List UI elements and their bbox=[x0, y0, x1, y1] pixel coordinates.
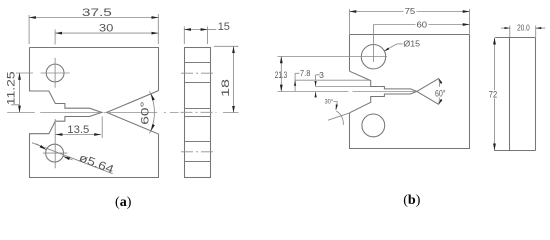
svg-text:11.25: 11.25 bbox=[6, 71, 18, 105]
svg-text:3: 3 bbox=[319, 70, 324, 80]
angle 60 arc (a) bbox=[150, 91, 155, 133]
plate (b) outline bbox=[350, 35, 470, 149]
svg-text:21.3: 21.3 bbox=[275, 70, 287, 80]
text 72 (b side) bbox=[488, 90, 499, 98]
leader dia 5.64 (a) bbox=[32, 143, 113, 174]
hole A2 center marks bbox=[43, 119, 68, 168]
svg-text:72: 72 bbox=[489, 90, 497, 100]
side view (b) outline bbox=[494, 38, 535, 151]
dimension 13.5 (a) bbox=[101, 117, 103, 139]
dimension 15 (a side) bbox=[184, 27, 207, 45]
side view (a) internal lines bbox=[185, 63, 211, 162]
hole B1 horizontal center/ref line bbox=[278, 56, 388, 58]
plate (a) outline bbox=[30, 48, 159, 178]
angle 60 arc (b) bbox=[439, 78, 440, 104]
svg-text:(a): (a) bbox=[115, 195, 132, 210]
leader dia 15 (b) bbox=[397, 43, 403, 45]
reference line to apex (b) bbox=[328, 113, 350, 120]
svg-text:13.5: 13.5 bbox=[67, 124, 89, 136]
side view (a) outline bbox=[185, 48, 211, 178]
svg-text:30: 30 bbox=[99, 23, 114, 35]
hole A1 center marks bbox=[41, 58, 70, 88]
text 60 (b) bbox=[416, 21, 429, 29]
dimension 3 (b) bbox=[315, 86, 371, 88]
V-notch (a) bbox=[107, 91, 159, 134]
svg-text:15: 15 bbox=[218, 21, 230, 33]
dimension 60 (b) bbox=[373, 25, 375, 63]
svg-text:7.8: 7.8 bbox=[300, 68, 311, 78]
side view (a) center lines bbox=[181, 72, 215, 74]
hole A1 top (a) bbox=[46, 64, 64, 82]
text 75 (b) bbox=[404, 8, 417, 16]
centerline crack plane (b) bbox=[278, 90, 417, 92]
centerline crack plane (a) bbox=[7, 111, 178, 113]
svg-text:Ø15: Ø15 bbox=[403, 39, 420, 49]
dimension 30 (a) bbox=[54, 30, 56, 45]
dimension 18 (a side) bbox=[214, 46, 239, 112]
dimension 11.25 (a) bbox=[11, 73, 33, 105]
svg-text:30°: 30° bbox=[325, 97, 334, 105]
V-notch lines 60deg (b) bbox=[417, 78, 439, 104]
angle 30 annotation (b) bbox=[334, 101, 338, 103]
hole B2 bottom (b) bbox=[362, 114, 385, 137]
dimension 7.8 (b) bbox=[295, 79, 369, 81]
svg-text:60°: 60° bbox=[140, 101, 152, 125]
notch profile (b) bbox=[350, 71, 417, 113]
dimension 75 (b) bbox=[350, 9, 470, 34]
svg-text:60: 60 bbox=[417, 20, 428, 30]
svg-text:18: 18 bbox=[220, 79, 232, 97]
dimension 20.0 (b side) bbox=[510, 26, 536, 38]
svg-text:20.0: 20.0 bbox=[517, 24, 530, 33]
svg-text:ø5.64: ø5.64 bbox=[77, 152, 116, 176]
dimension 37.5 (a) bbox=[29, 14, 158, 44]
dimension 72 (b side) bbox=[494, 38, 496, 151]
svg-text:60°: 60° bbox=[435, 88, 446, 98]
dimension 21.3 (b) bbox=[280, 57, 282, 92]
svg-text:(b): (b) bbox=[403, 193, 420, 208]
hole A2 bottom (a) bbox=[46, 144, 64, 162]
hole B1 top (b) bbox=[361, 45, 385, 69]
svg-text:75: 75 bbox=[405, 6, 416, 16]
svg-text:37.5: 37.5 bbox=[82, 7, 112, 19]
